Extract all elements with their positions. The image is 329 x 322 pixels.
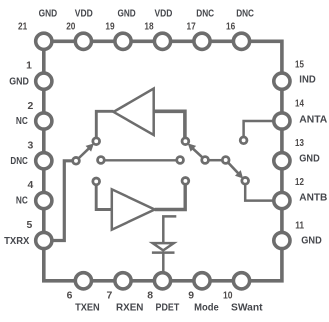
- wire SW2 common to SW3 common: [209, 159, 223, 162]
- svg-text:DNC: DNC: [196, 9, 214, 20]
- wire diode cathode to pin 8 PDET: [162, 253, 165, 273]
- svg-text:SWant: SWant: [231, 302, 263, 313]
- svg-text:13: 13: [295, 138, 304, 149]
- pin 13: [274, 153, 290, 169]
- svg-text:ANTA: ANTA: [299, 115, 327, 126]
- svg-text:6: 6: [67, 291, 73, 302]
- pin 4: [36, 193, 52, 209]
- svg-text:NC: NC: [16, 196, 28, 207]
- wire TX input: SW1 bottom contact to bottom amp: [96, 185, 112, 210]
- op-amp U1 RX amplifier (points left): [114, 89, 154, 135]
- pin 15: [274, 73, 290, 89]
- pin 9: [194, 273, 210, 289]
- svg-text:TXEN: TXEN: [75, 302, 100, 313]
- svg-text:GND: GND: [299, 154, 320, 165]
- pin 19: [115, 33, 131, 49]
- wire ANTB: contact down to pin 12: [245, 184, 274, 200]
- svg-text:16: 16: [226, 22, 235, 33]
- pin 21: [36, 33, 52, 49]
- wire bypass: SW1 mid contact to SW2 mid contact: [104, 159, 176, 161]
- svg-text:NC: NC: [16, 116, 28, 127]
- pin 11: [274, 232, 290, 248]
- SW2 top contact (RX in): [182, 138, 189, 145]
- svg-text:9: 9: [188, 291, 194, 302]
- pin 8: [154, 273, 170, 289]
- svg-text:17: 17: [187, 22, 196, 33]
- svg-text:20: 20: [66, 22, 75, 33]
- pin 10: [233, 273, 249, 289]
- SW3 ANTA contact: [240, 137, 247, 144]
- SW3 common contact: [222, 157, 229, 164]
- svg-text:12: 12: [295, 177, 304, 188]
- op-amp U2 TX amplifier (points right): [112, 189, 155, 229]
- package outline: [44, 41, 282, 280]
- svg-text:21: 21: [18, 22, 27, 33]
- svg-text:GND: GND: [118, 9, 137, 20]
- svg-text:5: 5: [27, 220, 33, 231]
- diode D1 cathode bar: [152, 251, 175, 254]
- svg-text:RXEN: RXEN: [116, 302, 143, 313]
- svg-text:2: 2: [28, 101, 34, 112]
- svg-text:19: 19: [105, 22, 114, 33]
- svg-text:GND: GND: [39, 9, 58, 20]
- pin 3: [36, 153, 52, 169]
- pin 5: [36, 232, 52, 248]
- wire TX output: bottom amp apex to SW2 bottom contact: [155, 184, 186, 209]
- svg-text:DNC: DNC: [10, 156, 28, 167]
- wire TXRX pin5 to SW1 common: [52, 161, 72, 241]
- SW3 ANTB contact: [242, 177, 249, 184]
- svg-text:IND: IND: [299, 74, 316, 85]
- svg-text:Mode: Mode: [194, 302, 219, 313]
- SW2 common contact: [202, 157, 209, 164]
- pin 12: [274, 193, 290, 209]
- svg-text:GND: GND: [301, 236, 322, 247]
- pin 7: [115, 273, 131, 289]
- wire ANTA: contact up to pin 14: [244, 121, 274, 137]
- svg-text:VDD: VDD: [154, 9, 172, 20]
- SW1 mid contact (bypass): [98, 157, 105, 164]
- switch SW2 blade: [189, 144, 203, 157]
- pin 14: [274, 113, 290, 129]
- svg-text:TXRX: TXRX: [4, 236, 29, 247]
- SW2 bottom contact (TX out): [182, 178, 189, 185]
- svg-text:4: 4: [28, 180, 34, 191]
- svg-text:14: 14: [295, 99, 304, 110]
- svg-text:11: 11: [295, 220, 304, 231]
- svg-text:8: 8: [147, 291, 153, 302]
- svg-text:PDET: PDET: [156, 302, 180, 313]
- SW1 bottom contact (TX): [93, 178, 100, 185]
- svg-text:1: 1: [26, 61, 32, 72]
- svg-text:VDD: VDD: [75, 9, 93, 20]
- pin 1: [36, 73, 52, 89]
- pin 18: [154, 33, 170, 49]
- pin 2: [36, 113, 52, 129]
- svg-text:ANTB: ANTB: [299, 193, 327, 204]
- svg-text:GND: GND: [9, 76, 29, 87]
- SW1 top contact (RX): [93, 138, 100, 145]
- svg-text:18: 18: [144, 22, 153, 33]
- wire RX output: SW1 top contact to top amp apex: [96, 111, 113, 138]
- diode D1 detector triangle: [153, 243, 174, 250]
- pin 6: [75, 273, 91, 289]
- SW1 common contact: [73, 157, 80, 164]
- pin 17: [194, 33, 210, 49]
- switch SW1 blade: [79, 144, 93, 158]
- svg-text:10: 10: [223, 291, 233, 302]
- switch SW3 blade: [228, 163, 242, 178]
- svg-text:7: 7: [107, 291, 113, 302]
- coupler stub to detector: [163, 216, 176, 243]
- pin 16: [233, 33, 249, 49]
- wire RX input: top amp right edge to SW2 top contact: [154, 111, 185, 138]
- svg-text:15: 15: [295, 59, 304, 70]
- svg-text:3: 3: [28, 140, 34, 151]
- pin 20: [75, 33, 91, 49]
- svg-text:DNC: DNC: [236, 9, 254, 20]
- SW2 mid contact (bypass): [177, 157, 184, 164]
